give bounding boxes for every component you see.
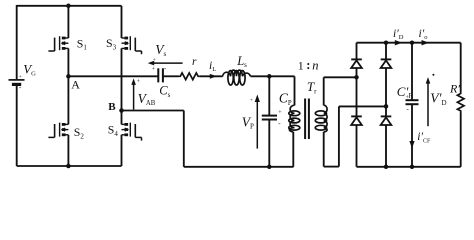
wire S1 leg drain [67, 6, 69, 38]
wire right leg D2 to midpoint [385, 68, 387, 106]
svg-text:+: + [19, 74, 22, 80]
wire left leg D1 to midpoint [356, 68, 358, 77]
wire bottom rail of bridge [17, 165, 122, 167]
svg-text:+: + [250, 98, 253, 104]
junction top rail at S leg [66, 4, 71, 9]
diode D1 upper-left [351, 59, 362, 68]
junction top rail at CF leg [410, 40, 415, 45]
junction right diode leg midpoint [384, 104, 389, 109]
current arrow iCF-prime (down) [409, 141, 414, 149]
voltage arrow VAB (points up) [131, 78, 136, 109]
wire S2 source to bottom rail [67, 135, 69, 166]
wire Cp leg upper [268, 76, 270, 115]
resistor R-prime load [457, 92, 464, 113]
wire tank bottom rail [184, 166, 294, 168]
resistor r [179, 73, 200, 80]
junction top rail at right diode leg [384, 40, 389, 45]
transistor S3 [122, 36, 142, 54]
transistor S4 [122, 123, 142, 141]
transistor S1 [48, 36, 68, 51]
wire secondary top to rectifier [324, 76, 357, 78]
wire secondary return to right leg [339, 105, 386, 107]
wire S1 source to node A [67, 48, 69, 76]
wire primary top stub [294, 76, 296, 105]
wire Cs to resistor r [163, 75, 179, 77]
svg-text:A: A [71, 77, 80, 91]
transformer core [305, 99, 309, 140]
current arrow iD-prime [395, 40, 403, 45]
wire right leg D4 to bottom [385, 125, 387, 167]
junction secondary-top at left diode leg [354, 75, 359, 80]
wire S4 source to bottom rail [121, 135, 123, 166]
wire CF leg upper [411, 43, 413, 100]
capacitor Cs [158, 68, 163, 82]
svg-text:1: 1 [298, 58, 304, 72]
wire node B to right [122, 110, 184, 112]
label turns ratio 1:n [298, 58, 319, 72]
wire Ls to transformer primary top [251, 75, 295, 77]
wire Cp leg lower [268, 120, 270, 167]
wire secondary bottom horizontal [324, 166, 339, 168]
junction bottom rail at S leg [66, 164, 71, 169]
wire load leg upper [460, 43, 462, 92]
wire right diode leg upper [385, 43, 387, 60]
svg-text:+: + [278, 110, 282, 116]
wire left diode leg upper [356, 43, 358, 60]
svg-text:R′: R′ [449, 82, 460, 96]
wire node A to capacitor Cs [68, 75, 158, 77]
junction Cp bottom [267, 165, 272, 170]
svg-text:+: + [152, 67, 156, 73]
svg-text:B: B [108, 101, 116, 113]
node A junction [66, 74, 71, 79]
wire r to inductor Ls with current arrow [200, 75, 223, 77]
diode D3 lower-left [351, 116, 362, 125]
wire secondary top stub [323, 77, 325, 105]
wire B-branch down [183, 111, 185, 167]
node Cp-top junction [267, 74, 272, 79]
voltage arrow Vs (points left) [148, 61, 183, 66]
wire secondary return up [338, 106, 340, 166]
svg-text:+: + [153, 57, 156, 63]
transistor S2 [48, 123, 68, 138]
wire node A to S2 drain [67, 76, 69, 124]
svg-text:+: + [137, 79, 141, 85]
wire rectifier top rail [357, 42, 461, 44]
wire S3 leg drain [121, 6, 123, 38]
voltage arrow Vp (points up) [255, 95, 260, 149]
inductor Ls [223, 70, 251, 85]
junction bottom rail at CF leg [410, 165, 415, 170]
wire S3 source to node B [121, 48, 123, 110]
wire CF leg lower [411, 104, 413, 167]
wire top rail of bridge [17, 5, 122, 7]
wire rectifier bottom rail [357, 166, 461, 168]
node B junction [119, 108, 124, 113]
junction bottom rail at right diode leg [384, 165, 389, 170]
wire left leg D3 to bottom [356, 125, 358, 167]
svg-text:r: r [192, 56, 197, 68]
wire primary bottom stub [292, 132, 294, 167]
capacitor CF-prime [406, 100, 419, 104]
diode D4 lower-right [381, 116, 392, 125]
voltage arrow VD-prime (up) [426, 77, 431, 126]
capacitor Cp [262, 116, 277, 120]
diode D2 upper-right [381, 59, 392, 68]
wire right leg midpoint to D4 [385, 106, 387, 116]
svg-text:n: n [312, 58, 318, 72]
wire load leg lower [460, 113, 462, 167]
wire secondary bottom stub [323, 132, 325, 167]
plus dot above VD-prime [432, 74, 434, 76]
svg-text::: : [306, 58, 310, 72]
transformer secondary winding [315, 105, 327, 132]
current arrow io-prime [422, 40, 430, 45]
wire node B to S4 drain [121, 111, 123, 125]
current arrow iL [210, 74, 217, 79]
transformer primary winding [289, 105, 300, 132]
wire left leg midpoint to D3 [356, 77, 358, 116]
wire left rail (battery branch) upper [16, 5, 18, 79]
battery source VG [9, 80, 25, 85]
wire left rail lower [16, 84, 18, 166]
